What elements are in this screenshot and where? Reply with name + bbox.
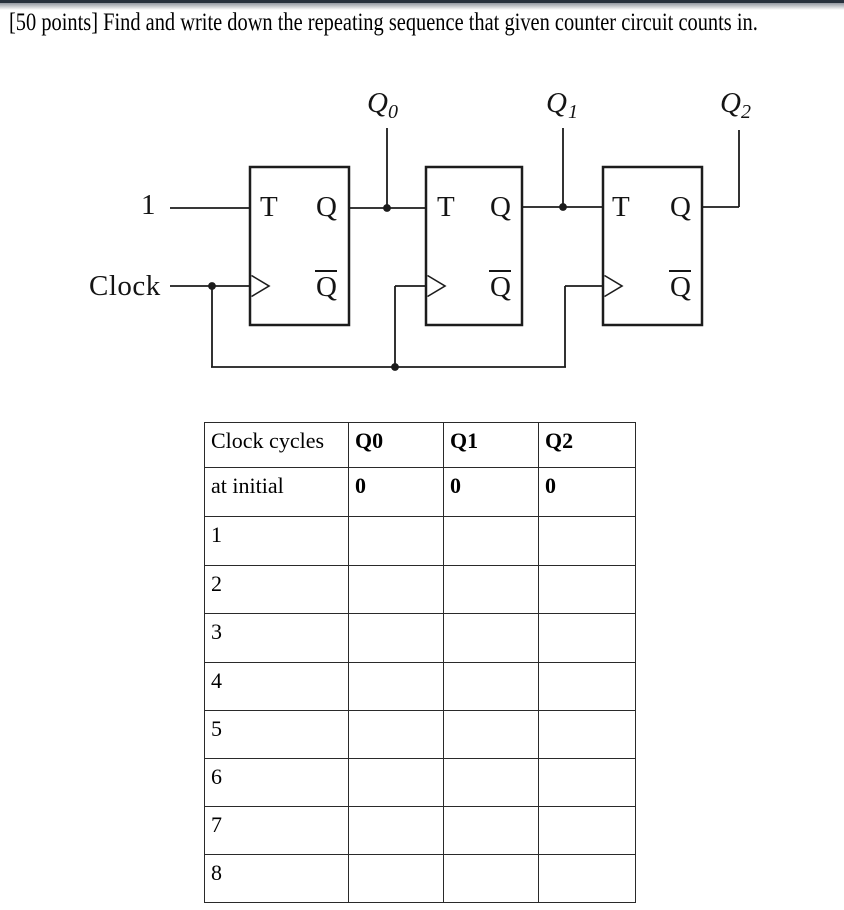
svg-text:Q: Q — [670, 191, 691, 223]
svg-text:Q: Q — [490, 191, 511, 223]
svg-text:1: 1 — [141, 189, 156, 221]
svg-text:0: 0 — [388, 101, 398, 123]
svg-text:Q: Q — [316, 271, 337, 303]
svg-text:Q: Q — [720, 87, 741, 119]
svg-text:1: 1 — [568, 101, 578, 123]
svg-text:Q: Q — [546, 87, 567, 119]
svg-text:Q: Q — [367, 87, 388, 119]
svg-text:T: T — [437, 191, 455, 223]
svg-text:Clock: Clock — [89, 270, 161, 302]
svg-text:Q: Q — [670, 271, 691, 303]
svg-text:T: T — [260, 191, 278, 223]
svg-text:Q: Q — [316, 191, 337, 223]
svg-text:T: T — [612, 191, 630, 223]
svg-text:2: 2 — [741, 101, 751, 123]
svg-text:Q: Q — [490, 271, 511, 303]
